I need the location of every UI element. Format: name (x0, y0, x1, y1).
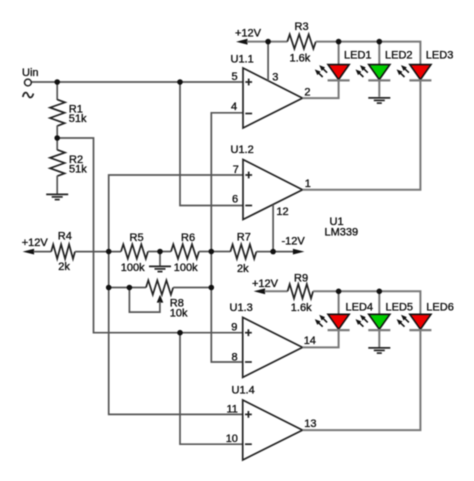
wire: LED2 cathode to ground (378, 81, 380, 97)
svg-text:LED3: LED3 (426, 50, 454, 62)
resistor R9 (288, 284, 314, 298)
wire: Uin tap down to pin 6 of U1.2 (180, 82, 243, 206)
wire: bottom rail R9 to LED6 corner (313, 291, 420, 314)
svg-text:LED6: LED6 (426, 302, 454, 314)
op-amp U1.3 (243, 317, 303, 377)
svg-text:11: 11 (227, 404, 238, 416)
svg-text:1.6k: 1.6k (291, 302, 312, 314)
wire: R5 to R6 (148, 251, 171, 253)
svg-text:U1.2: U1.2 (231, 144, 254, 156)
svg-text:5: 5 (232, 71, 238, 83)
wire: arrow to R4 (34, 251, 52, 253)
+12V arrow top (236, 39, 248, 45)
wire: arrow to R3 (247, 41, 288, 43)
wire: LED5 anode stub (378, 291, 380, 314)
op-amp U1.1 (243, 68, 303, 128)
potentiometer R8 (146, 280, 173, 294)
svg-text:LED2: LED2 (385, 50, 413, 62)
wire: top rail R3 to LED3 corner (316, 42, 421, 65)
svg-text:R9: R9 (294, 272, 308, 284)
wire: LED5 cathode to ground (378, 331, 380, 347)
junction: R5/R6 midpoint ground tap (157, 249, 163, 255)
svg-text:100k: 100k (174, 262, 198, 274)
svg-text:LED5: LED5 (386, 302, 414, 314)
svg-text:U1.3: U1.3 (230, 302, 253, 314)
svg-text:R5: R5 (130, 232, 144, 244)
junction: mid rail / pin 7 branch (106, 249, 112, 255)
junction: R8 wiper tie (127, 285, 133, 291)
svg-text:R3: R3 (295, 21, 309, 33)
svg-text:1.6k: 1.6k (290, 53, 311, 65)
wire: pin 3 to +12V rail (267, 42, 269, 81)
svg-text:3: 3 (272, 72, 278, 84)
junction: R1/R2 divider midpoint (54, 135, 60, 141)
svg-text:+12V: +12V (22, 237, 49, 249)
svg-text:R6: R6 (181, 232, 195, 244)
wire: Uin main horizontal rail to U1.1 +input (31, 81, 243, 83)
wire: LED4 cathode to pin 14 output (303, 331, 339, 348)
svg-text:R4: R4 (58, 231, 72, 243)
junction: bottom rail / LED4 anode (336, 289, 342, 295)
svg-text:U1.4: U1.4 (232, 385, 255, 397)
svg-text:51k: 51k (69, 164, 87, 176)
junction: bottom rail / LED5 anode (377, 289, 383, 295)
wire: R1 to R2 (56, 126, 58, 151)
wire: junction x57 down to R1 (56, 82, 58, 100)
junction: top rail / LED2 anode (377, 39, 383, 45)
svg-text:51k: 51k (69, 113, 87, 125)
resistor R1 (50, 100, 65, 126)
svg-text:8: 8 (232, 352, 238, 364)
svg-text:+12V: +12V (235, 28, 262, 40)
svg-text:Uin: Uin (22, 67, 39, 79)
wire: R8 row left (109, 287, 146, 289)
op-amp U1.2 (243, 160, 303, 220)
wire: arrow to R9 (265, 290, 288, 292)
svg-text:U1.1: U1.1 (231, 54, 254, 66)
svg-text:1: 1 (305, 178, 311, 190)
wire: R1/R2 junction right and down to pin 9 of U1.3 (57, 138, 243, 333)
wire: R2 bottom to ground (56, 176, 58, 194)
resistor R4 (51, 244, 75, 258)
wire: R6 to R7 (199, 251, 230, 253)
svg-text:13: 13 (304, 418, 316, 430)
junction: top rail / LED1 anode (336, 39, 342, 45)
ground below R2 (46, 194, 68, 199)
ground below LED2 (368, 98, 390, 103)
wire: LED1 cathode to pin 2 output (303, 81, 339, 98)
resistor R6 (171, 244, 199, 258)
wire: R7 to -12V arrow (256, 251, 294, 253)
resistor R2 (50, 150, 65, 176)
wire: pin 4 net down to pin 8 of U1.3 (211, 113, 243, 362)
svg-text:2k: 2k (58, 261, 70, 273)
junction: +12V rail / pin 3 (265, 39, 271, 45)
junction: R8 row right (209, 285, 215, 291)
wire: LED2 anode stub (378, 42, 380, 65)
svg-text:14: 14 (304, 335, 316, 347)
resistor R5 (121, 244, 148, 258)
svg-text:10k: 10k (170, 307, 188, 319)
junction: Uin rail / R1 top (54, 79, 60, 85)
svg-text:4: 4 (231, 101, 237, 113)
svg-text:9: 9 (231, 322, 237, 334)
wire: LED3 cathode down to pin 1 output (303, 81, 421, 190)
svg-text:12: 12 (276, 206, 288, 218)
wire: pin 12 down to -12V node (272, 205, 274, 252)
node: Uin terminal circle (25, 79, 32, 86)
-12V arrow right (293, 249, 305, 255)
ground stub between R5 and R6 (159, 252, 161, 266)
svg-text:-12V: -12V (282, 236, 306, 248)
R8 wiper arrow (157, 295, 164, 303)
junction: R8 row left (106, 285, 112, 291)
svg-text:LM339: LM339 (325, 227, 359, 239)
svg-text:2k: 2k (237, 263, 249, 275)
+12V arrow bottom (254, 288, 266, 294)
svg-text:+12V: +12V (252, 278, 279, 290)
svg-text:2: 2 (304, 86, 310, 98)
AC sine symbol below Uin (23, 93, 34, 98)
junction: mid rail / pin 4 branch (209, 249, 215, 255)
resistor R7 (230, 244, 256, 258)
resistor R3 (287, 34, 316, 48)
+12V arrow left (middle row) (23, 249, 34, 255)
svg-text:6: 6 (232, 194, 238, 206)
svg-text:R7: R7 (237, 232, 251, 244)
svg-text:7: 7 (233, 164, 239, 176)
wire: R8 to right vertical (173, 287, 211, 289)
junction: Uin rail / pin 6 branch (177, 79, 183, 85)
wire: pin9 node down to pin 10 of U1.4 (180, 333, 243, 445)
op-amp U1.4 (243, 400, 303, 460)
wire: LED6 cathode down to pin 13 output (303, 331, 421, 430)
wire: R4 to R5 (75, 251, 121, 253)
wire: pin 7 rail down to pin 11 of U1.4 (109, 175, 243, 414)
wire: LED1 anode stub (338, 42, 340, 65)
svg-text:10: 10 (226, 433, 238, 445)
junction: pin 9 wire / pin 10 branch (177, 330, 183, 336)
svg-text:100k: 100k (121, 262, 145, 274)
ground below LED5 (368, 348, 390, 353)
wire: LED4 anode stub (338, 291, 340, 314)
junction: R7 / pin 12 (270, 249, 276, 255)
svg-text:LED4: LED4 (346, 302, 374, 314)
svg-text:LED1: LED1 (344, 50, 372, 62)
